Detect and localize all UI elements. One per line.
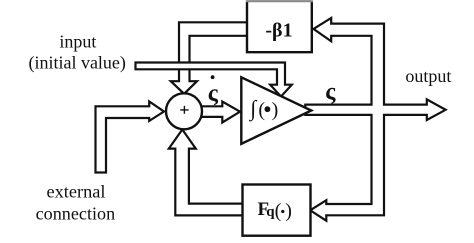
wire input bar to integrator top [136, 63, 292, 97]
wire summing junction to integrator [197, 102, 240, 123]
wire external connection into summing junction [96, 102, 165, 173]
wire from -β1 output left then down into summing junction [171, 22, 250, 94]
box Fq [243, 185, 311, 236]
plus sign [180, 106, 188, 114]
svg-text:connection: connection [36, 203, 115, 223]
output wire with feedback branches to -β1 and Fq [305, 18, 445, 221]
summing junction circle [166, 93, 202, 129]
wire feedback Fq to summing junction bottom [169, 130, 245, 216]
svg-text:): ) [285, 200, 292, 222]
gray top border of -β1 box [246, 0, 313, 2]
integrator triangle U1 [241, 77, 311, 144]
derivative dot [211, 75, 215, 79]
svg-text:ς: ς [325, 79, 336, 105]
svg-text:(: ( [258, 99, 265, 121]
svg-text:output: output [405, 66, 451, 86]
svg-text:(: ( [275, 200, 282, 222]
svg-text:external: external [47, 181, 106, 201]
svg-text:-β1: -β1 [265, 19, 292, 41]
box -β1 [247, 2, 312, 52]
svg-text:ς: ς [208, 81, 219, 107]
svg-text:(initial value): (initial value) [28, 53, 125, 74]
svg-text:): ) [272, 99, 279, 121]
svg-text:input: input [59, 32, 96, 52]
